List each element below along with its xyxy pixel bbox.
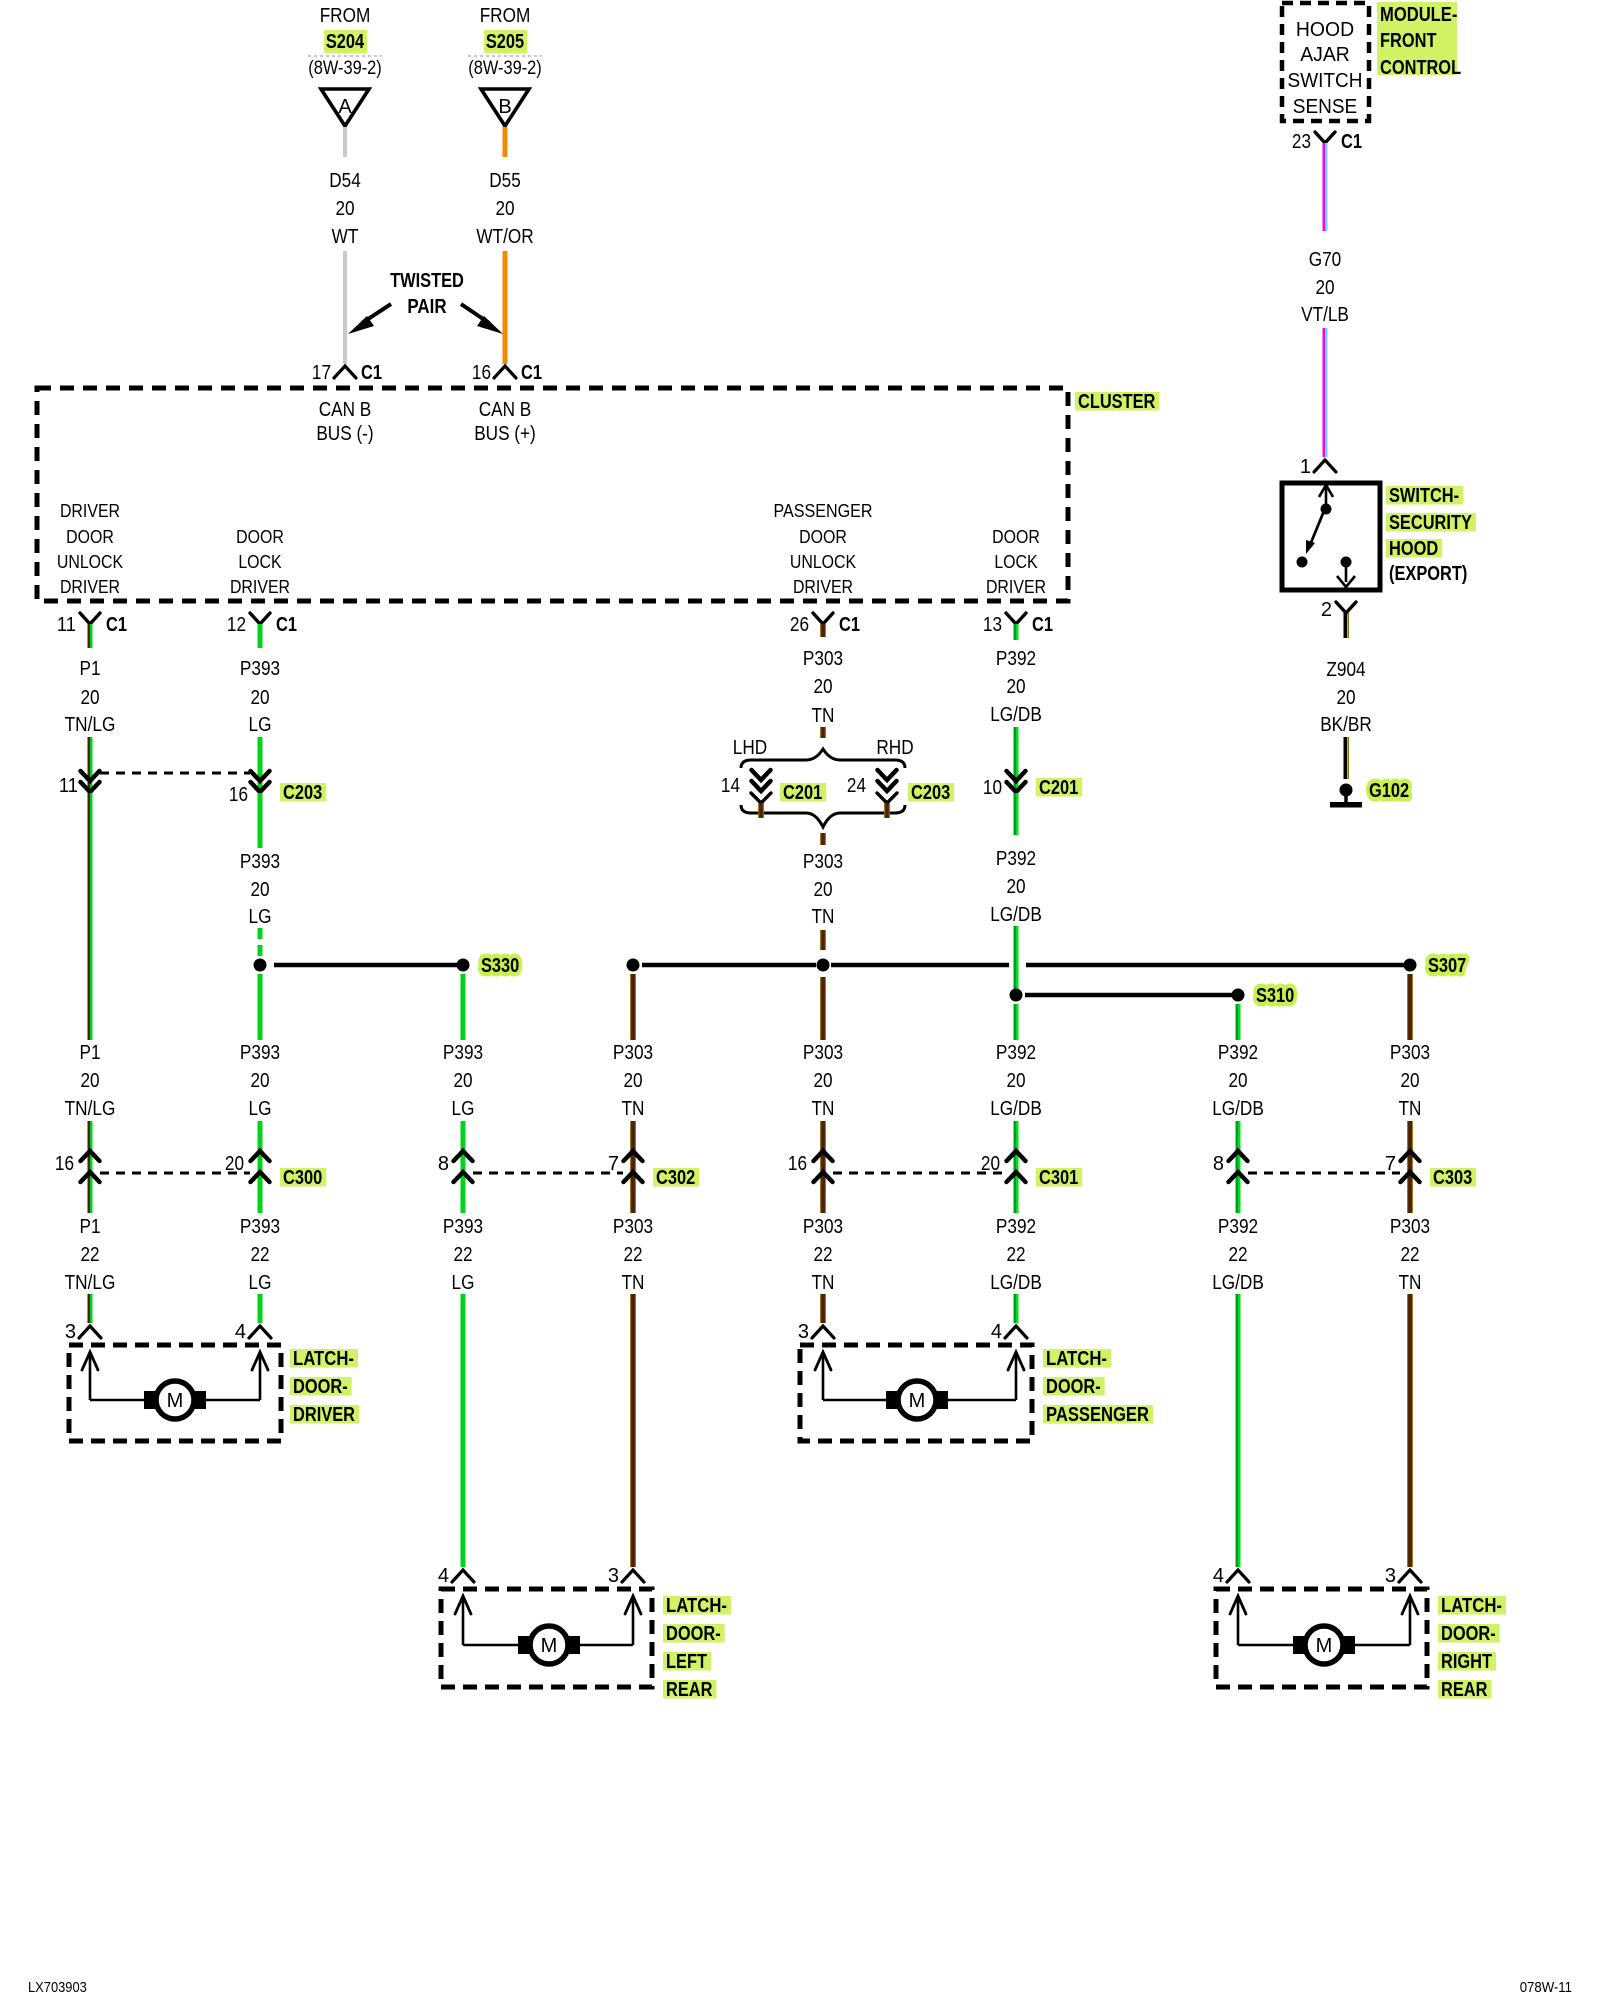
- svg-text:C1: C1: [839, 614, 860, 636]
- svg-text:C303: C303: [1433, 1167, 1472, 1189]
- svg-text:TN/LG: TN/LG: [65, 1098, 116, 1120]
- module hood-ajar-switch-sense box: [1282, 3, 1369, 121]
- wire P393 20 LG (upper): [240, 658, 280, 795]
- svg-text:P1: P1: [80, 1216, 101, 1238]
- svg-text:TN: TN: [812, 1272, 835, 1294]
- wire P303 20 TN (left rear): [613, 974, 653, 1192]
- svg-text:Z904: Z904: [1326, 659, 1365, 681]
- svg-text:G70: G70: [1309, 249, 1342, 271]
- svg-text:LG/DB: LG/DB: [990, 1098, 1042, 1120]
- label C201: [1036, 777, 1082, 799]
- label MODULE-FRONT CONTROL: [1377, 2, 1461, 79]
- wire P393 20 LG (middle): [240, 793, 280, 956]
- svg-text:LATCH-: LATCH-: [1046, 1348, 1107, 1370]
- svg-text:D55: D55: [489, 170, 521, 192]
- label DOOR LOCK DRIVER (left): [230, 526, 290, 597]
- svg-text:20: 20: [1336, 687, 1355, 709]
- svg-text:8: 8: [438, 1153, 449, 1175]
- connector pin 4 (latch right rear): [1213, 1565, 1249, 1587]
- triangle connector A: [321, 89, 369, 126]
- svg-text:8: 8: [1213, 1153, 1224, 1175]
- splice S330: [254, 955, 520, 977]
- svg-text:PAIR: PAIR: [407, 296, 447, 318]
- svg-text:C301: C301: [1039, 1167, 1078, 1189]
- svg-text:LG/DB: LG/DB: [1212, 1098, 1264, 1120]
- svg-text:22: 22: [250, 1244, 269, 1266]
- svg-text:BUS (-): BUS (-): [316, 423, 373, 445]
- in-line connector C302 pin 7: [608, 1151, 643, 1182]
- wire P392 20 LG/DB (below S310): [990, 1004, 1042, 1192]
- label C201 (LHD): [780, 782, 826, 804]
- wire P393 20 LG (S330 branch): [443, 974, 483, 1192]
- svg-text:LG: LG: [452, 1272, 475, 1294]
- svg-text:20: 20: [813, 1070, 832, 1092]
- label LATCH-DOOR-RIGHT-REAR: [1438, 1595, 1506, 1701]
- wire P392 20 LG/DB (upper): [990, 648, 1042, 795]
- dashed link C300: [100, 1172, 250, 1175]
- svg-text:23: 23: [1292, 131, 1311, 153]
- svg-text:M: M: [1316, 1635, 1333, 1657]
- svg-text:REAR: REAR: [666, 1679, 713, 1701]
- label C300: [280, 1167, 326, 1189]
- svg-text:C1: C1: [276, 614, 297, 636]
- svg-text:TN/LG: TN/LG: [65, 714, 116, 736]
- svg-text:1: 1: [1300, 456, 1311, 478]
- svg-text:FRONT: FRONT: [1380, 30, 1437, 52]
- wire P303 22 TN (to right rear): [1390, 1190, 1430, 1567]
- splice S310: [1010, 985, 1295, 1007]
- svg-text:P303: P303: [613, 1216, 653, 1238]
- svg-text:P303: P303: [1390, 1042, 1430, 1064]
- svg-text:P392: P392: [1218, 1042, 1258, 1064]
- svg-text:22: 22: [813, 1244, 832, 1266]
- svg-text:DRIVER: DRIVER: [60, 500, 120, 521]
- svg-text:22: 22: [1006, 1244, 1025, 1266]
- label FROM S204 (8W-39-2): [308, 5, 382, 79]
- svg-text:MODULE-: MODULE-: [1380, 4, 1457, 26]
- svg-text:P393: P393: [240, 1216, 280, 1238]
- svg-text:20: 20: [1315, 277, 1334, 299]
- svg-text:WT: WT: [332, 226, 359, 248]
- svg-text:2: 2: [1321, 599, 1332, 621]
- svg-text:DRIVER: DRIVER: [793, 576, 853, 597]
- connector pin 26 C1: [790, 613, 860, 637]
- node CAN B BUS (-): [316, 399, 373, 445]
- svg-text:TN: TN: [812, 705, 835, 727]
- svg-text:D54: D54: [329, 170, 361, 192]
- svg-text:P392: P392: [1218, 1216, 1258, 1238]
- label PASSENGER DOOR UNLOCK DRIVER: [774, 500, 873, 597]
- svg-text:P303: P303: [803, 648, 843, 670]
- svg-text:20: 20: [335, 198, 354, 220]
- svg-text:13: 13: [983, 614, 1002, 636]
- wire D55 20 WT/OR: [476, 127, 533, 364]
- connector pin 4 (latch passenger): [991, 1321, 1027, 1343]
- svg-text:SWITCH-: SWITCH-: [1389, 485, 1459, 507]
- svg-text:C1: C1: [1341, 131, 1362, 153]
- svg-text:22: 22: [80, 1244, 99, 1266]
- label DOOR LOCK DRIVER (right): [986, 526, 1046, 597]
- svg-text:LG/DB: LG/DB: [990, 1272, 1042, 1294]
- svg-text:PASSENGER: PASSENGER: [1046, 1404, 1149, 1426]
- splice S307: [627, 955, 1467, 977]
- svg-text:078W-11: 078W-11: [1520, 1979, 1572, 1996]
- svg-text:S204: S204: [326, 31, 365, 53]
- svg-text:LG: LG: [249, 1098, 272, 1120]
- dashed link C203: [100, 772, 250, 775]
- svg-text:M: M: [909, 1390, 926, 1412]
- connector pin 11 C1: [57, 613, 127, 648]
- svg-text:PASSENGER: PASSENGER: [774, 500, 873, 521]
- svg-text:20: 20: [1006, 1070, 1025, 1092]
- switch blade and contacts: [1297, 485, 1356, 587]
- svg-text:LG: LG: [249, 906, 272, 928]
- label C301: [1036, 1167, 1082, 1189]
- svg-text:20: 20: [813, 879, 832, 901]
- svg-text:LATCH-: LATCH-: [293, 1348, 354, 1370]
- svg-text:P393: P393: [240, 851, 280, 873]
- cluster module box: [37, 388, 1068, 601]
- svg-text:P393: P393: [443, 1042, 483, 1064]
- svg-text:16: 16: [788, 1153, 807, 1175]
- wire P1 20 TN/LG (long): [65, 793, 116, 1192]
- in-line connector C201 pin 14: [721, 770, 771, 818]
- svg-text:P303: P303: [803, 1042, 843, 1064]
- svg-text:P393: P393: [240, 658, 280, 680]
- svg-text:BK/BR: BK/BR: [1320, 714, 1372, 736]
- in-line connector C300 pin 20: [225, 1151, 270, 1182]
- wire P303 20 TN (below S307): [803, 977, 843, 1192]
- svg-text:P303: P303: [803, 1216, 843, 1238]
- wire P303 22 TN (to passenger): [803, 1190, 843, 1323]
- svg-text:P392: P392: [996, 1216, 1036, 1238]
- label LATCH-DOOR-DRIVER: [290, 1348, 359, 1426]
- wire P393 22 LG: [240, 1190, 280, 1323]
- svg-text:16: 16: [229, 784, 248, 806]
- svg-text:LG/DB: LG/DB: [990, 704, 1042, 726]
- svg-text:3: 3: [65, 1321, 76, 1343]
- svg-text:(8W-39-2): (8W-39-2): [308, 58, 382, 79]
- connector pin 3 (latch driver): [65, 1321, 101, 1343]
- label C203: [280, 782, 326, 804]
- svg-text:M: M: [541, 1635, 558, 1657]
- in-line connector C300 pin 16: [55, 1151, 100, 1182]
- wire P393 20 LG (below S330): [240, 974, 280, 1192]
- wire D54 20 WT: [329, 127, 361, 364]
- svg-text:20: 20: [1006, 876, 1025, 898]
- wire P303 20 TN (right rear): [1390, 974, 1430, 1192]
- svg-text:WT/OR: WT/OR: [476, 226, 533, 248]
- svg-text:P393: P393: [443, 1216, 483, 1238]
- connector pin 1 (hood switch): [1300, 456, 1336, 478]
- connector pin 2 (hood switch): [1321, 599, 1356, 638]
- svg-text:LATCH-: LATCH-: [666, 1595, 727, 1617]
- svg-text:TN: TN: [812, 906, 835, 928]
- svg-text:P303: P303: [803, 851, 843, 873]
- svg-text:LG/DB: LG/DB: [990, 904, 1042, 926]
- connector pin 12 C1: [227, 613, 297, 648]
- svg-text:20: 20: [250, 879, 269, 901]
- connector pin 4 (latch driver): [235, 1321, 271, 1343]
- brace split LHD/RHD: [741, 749, 905, 827]
- svg-text:P303: P303: [613, 1042, 653, 1064]
- svg-text:26: 26: [790, 614, 809, 636]
- in-line connector C203 pin 16: [229, 771, 270, 806]
- svg-text:16: 16: [55, 1153, 74, 1175]
- svg-text:LOCK: LOCK: [994, 551, 1038, 572]
- motor M latch-door-left-rear: [441, 1589, 652, 1687]
- svg-text:LG: LG: [249, 1272, 272, 1294]
- svg-text:(8W-39-2): (8W-39-2): [468, 58, 542, 79]
- connector pin 3 (latch left rear): [608, 1565, 644, 1587]
- svg-text:C1: C1: [1032, 614, 1053, 636]
- svg-text:C300: C300: [283, 1167, 322, 1189]
- svg-text:P1: P1: [80, 1042, 101, 1064]
- svg-text:3: 3: [798, 1321, 809, 1343]
- wire P1 22 TN/LG: [65, 1190, 116, 1323]
- svg-text:P1: P1: [80, 658, 101, 680]
- svg-text:20: 20: [1228, 1070, 1247, 1092]
- svg-text:TN: TN: [622, 1272, 645, 1294]
- motor M latch-door-right-rear: [1216, 1589, 1427, 1687]
- svg-text:LG: LG: [249, 714, 272, 736]
- svg-text:HOOD: HOOD: [1296, 19, 1354, 41]
- dashed link C303: [1248, 1172, 1400, 1175]
- svg-text:UNLOCK: UNLOCK: [57, 551, 124, 572]
- svg-text:DRIVER: DRIVER: [293, 1404, 355, 1426]
- wire P392 22 LG/DB (to right rear): [1212, 1190, 1264, 1567]
- svg-text:RIGHT: RIGHT: [1441, 1651, 1492, 1673]
- in-line connector C303 pin 7: [1385, 1151, 1420, 1182]
- wire P392 20 LG/DB (S310 branch): [1212, 1004, 1264, 1192]
- svg-text:4: 4: [991, 1321, 1002, 1343]
- svg-text:DOOR-: DOOR-: [1046, 1376, 1101, 1398]
- svg-text:TN: TN: [1399, 1272, 1422, 1294]
- svg-text:M: M: [167, 1390, 184, 1412]
- svg-text:S330: S330: [481, 955, 519, 977]
- svg-text:C203: C203: [911, 782, 950, 804]
- connector pin 4 (latch left rear): [438, 1565, 474, 1587]
- svg-text:C1: C1: [521, 362, 542, 384]
- svg-text:DOOR-: DOOR-: [666, 1623, 721, 1645]
- svg-text:CAN B: CAN B: [319, 399, 372, 421]
- motor M latch-door-driver: [69, 1345, 281, 1441]
- svg-text:C201: C201: [1039, 777, 1078, 799]
- in-line connector C201 pin 10: [983, 771, 1026, 799]
- svg-text:10: 10: [983, 777, 1002, 799]
- svg-text:SECURITY: SECURITY: [1389, 512, 1472, 534]
- dashed link C302: [473, 1172, 623, 1175]
- svg-text:UNLOCK: UNLOCK: [790, 551, 857, 572]
- svg-text:LHD: LHD: [733, 737, 767, 759]
- svg-text:TN: TN: [622, 1098, 645, 1120]
- svg-text:LEFT: LEFT: [666, 1651, 707, 1673]
- svg-text:DOOR: DOOR: [236, 526, 284, 547]
- svg-text:C1: C1: [361, 362, 382, 384]
- svg-text:20: 20: [1400, 1070, 1419, 1092]
- in-line connector C203 pin 24: [847, 770, 897, 818]
- svg-text:20: 20: [453, 1070, 472, 1092]
- svg-text:20: 20: [1006, 676, 1025, 698]
- svg-text:LOCK: LOCK: [238, 551, 282, 572]
- svg-text:CAN B: CAN B: [479, 399, 532, 421]
- svg-text:4: 4: [438, 1565, 449, 1587]
- svg-text:C203: C203: [283, 782, 322, 804]
- svg-text:G102: G102: [1369, 780, 1409, 802]
- svg-text:20: 20: [250, 687, 269, 709]
- svg-text:VT/LB: VT/LB: [1301, 304, 1349, 326]
- svg-text:3: 3: [608, 1565, 619, 1587]
- svg-text:P303: P303: [1390, 1216, 1430, 1238]
- svg-text:11: 11: [59, 775, 78, 797]
- svg-text:DOOR: DOOR: [992, 526, 1040, 547]
- connector pin 17 C1: [312, 362, 382, 384]
- label LATCH-DOOR-PASSENGER: [1043, 1348, 1153, 1426]
- connector pin 23 C1: [1292, 131, 1362, 162]
- svg-text:P392: P392: [996, 848, 1036, 870]
- label FROM S205 (8W-39-2): [468, 5, 542, 79]
- svg-text:CONTROL: CONTROL: [1380, 57, 1461, 79]
- svg-text:C201: C201: [783, 782, 822, 804]
- wire P1 20 TN/LG (upper): [65, 658, 116, 795]
- svg-text:22: 22: [623, 1244, 642, 1266]
- svg-text:DRIVER: DRIVER: [60, 576, 120, 597]
- svg-text:RHD: RHD: [876, 737, 913, 759]
- dashed link C301: [833, 1172, 1006, 1175]
- svg-text:22: 22: [453, 1244, 472, 1266]
- svg-text:BUS (+): BUS (+): [474, 423, 536, 445]
- svg-text:TN/LG: TN/LG: [65, 1272, 116, 1294]
- svg-text:C302: C302: [656, 1167, 695, 1189]
- svg-text:DOOR-: DOOR-: [293, 1376, 348, 1398]
- label C303: [1430, 1167, 1476, 1189]
- connector pin 3 (latch passenger): [798, 1321, 834, 1343]
- in-line connector C302 pin 8: [438, 1151, 473, 1182]
- svg-text:LATCH-: LATCH-: [1441, 1595, 1502, 1617]
- svg-text:(EXPORT): (EXPORT): [1389, 563, 1467, 585]
- svg-text:S310: S310: [1256, 985, 1294, 1007]
- switch-security-hood box: [1282, 483, 1380, 590]
- svg-text:DOOR: DOOR: [799, 526, 847, 547]
- svg-text:LG/DB: LG/DB: [1212, 1272, 1264, 1294]
- ground G102: [1330, 780, 1409, 808]
- svg-text:TN: TN: [812, 1098, 835, 1120]
- node CAN B BUS (+): [474, 399, 536, 445]
- svg-text:4: 4: [235, 1321, 246, 1343]
- wire P303 20 TN (upper): [803, 648, 843, 738]
- svg-text:11: 11: [57, 614, 76, 636]
- svg-text:12: 12: [227, 614, 246, 636]
- in-line connector C203 pin 11: [59, 771, 100, 797]
- in-line connector C301 pin 16: [788, 1151, 833, 1182]
- svg-text:P392: P392: [996, 1042, 1036, 1064]
- svg-text:4: 4: [1213, 1565, 1224, 1587]
- svg-text:S205: S205: [486, 31, 524, 53]
- in-line connector C303 pin 8: [1213, 1151, 1248, 1182]
- svg-text:20: 20: [495, 198, 514, 220]
- svg-text:LG: LG: [452, 1098, 475, 1120]
- svg-text:DRIVER: DRIVER: [986, 576, 1046, 597]
- svg-text:P392: P392: [996, 648, 1036, 670]
- label LATCH-DOOR-LEFT-REAR: [663, 1595, 731, 1701]
- svg-text:REAR: REAR: [1441, 1679, 1488, 1701]
- svg-text:20: 20: [250, 1070, 269, 1092]
- svg-text:16: 16: [472, 362, 491, 384]
- svg-text:22: 22: [1228, 1244, 1247, 1266]
- connector pin 13 C1: [983, 613, 1053, 640]
- label SWITCH-SECURITY HOOD (EXPORT): [1386, 485, 1476, 585]
- wire P392 20 LG/DB (middle): [990, 793, 1042, 990]
- wire P393 22 LG (to left rear): [443, 1190, 483, 1567]
- triangle connector B: [481, 89, 529, 126]
- wire G70 20 VT/LB: [1301, 162, 1349, 457]
- svg-text:14: 14: [721, 775, 740, 797]
- svg-text:S307: S307: [1428, 955, 1466, 977]
- connector pin 16 C1: [472, 362, 542, 384]
- svg-text:A: A: [338, 96, 352, 118]
- label TWISTED PAIR with arrows: [348, 270, 503, 334]
- svg-text:SENSE: SENSE: [1293, 96, 1357, 118]
- label C302: [653, 1167, 699, 1189]
- svg-text:TWISTED: TWISTED: [390, 270, 464, 292]
- label C203 (RHD): [908, 782, 954, 804]
- svg-text:DOOR: DOOR: [66, 526, 114, 547]
- svg-text:AJAR: AJAR: [1300, 44, 1350, 66]
- svg-text:DRIVER: DRIVER: [230, 576, 290, 597]
- connector pin 3 (latch right rear): [1385, 1565, 1421, 1587]
- svg-text:20: 20: [80, 1070, 99, 1092]
- svg-text:22: 22: [1400, 1244, 1419, 1266]
- svg-text:17: 17: [312, 362, 331, 384]
- svg-text:FROM: FROM: [320, 5, 371, 27]
- label DRIVER DOOR UNLOCK DRIVER: [57, 500, 124, 597]
- wire P303 20 TN (middle): [803, 833, 843, 950]
- wire P303 22 TN (to left rear): [613, 1190, 653, 1567]
- svg-text:B: B: [498, 96, 511, 118]
- motor M latch-door-passenger: [800, 1345, 1032, 1441]
- svg-text:24: 24: [847, 775, 866, 797]
- svg-text:P393: P393: [240, 1042, 280, 1064]
- svg-text:20: 20: [623, 1070, 642, 1092]
- svg-text:3: 3: [1385, 1565, 1396, 1587]
- svg-text:DOOR-: DOOR-: [1441, 1623, 1496, 1645]
- svg-text:20: 20: [80, 687, 99, 709]
- svg-text:HOOD: HOOD: [1389, 538, 1438, 560]
- svg-text:FROM: FROM: [480, 5, 531, 27]
- wire Z904 20 BK/BR: [1320, 659, 1372, 779]
- svg-text:SWITCH: SWITCH: [1288, 70, 1363, 92]
- in-line connector C301 pin 20: [981, 1151, 1026, 1182]
- wire P392 22 LG/DB (to passenger): [990, 1190, 1042, 1323]
- svg-text:TN: TN: [1399, 1098, 1422, 1120]
- label CLUSTER: [1075, 391, 1159, 413]
- svg-text:LX703903: LX703903: [28, 1979, 87, 1996]
- svg-text:C1: C1: [106, 614, 127, 636]
- svg-text:20: 20: [813, 676, 832, 698]
- svg-text:CLUSTER: CLUSTER: [1078, 391, 1156, 413]
